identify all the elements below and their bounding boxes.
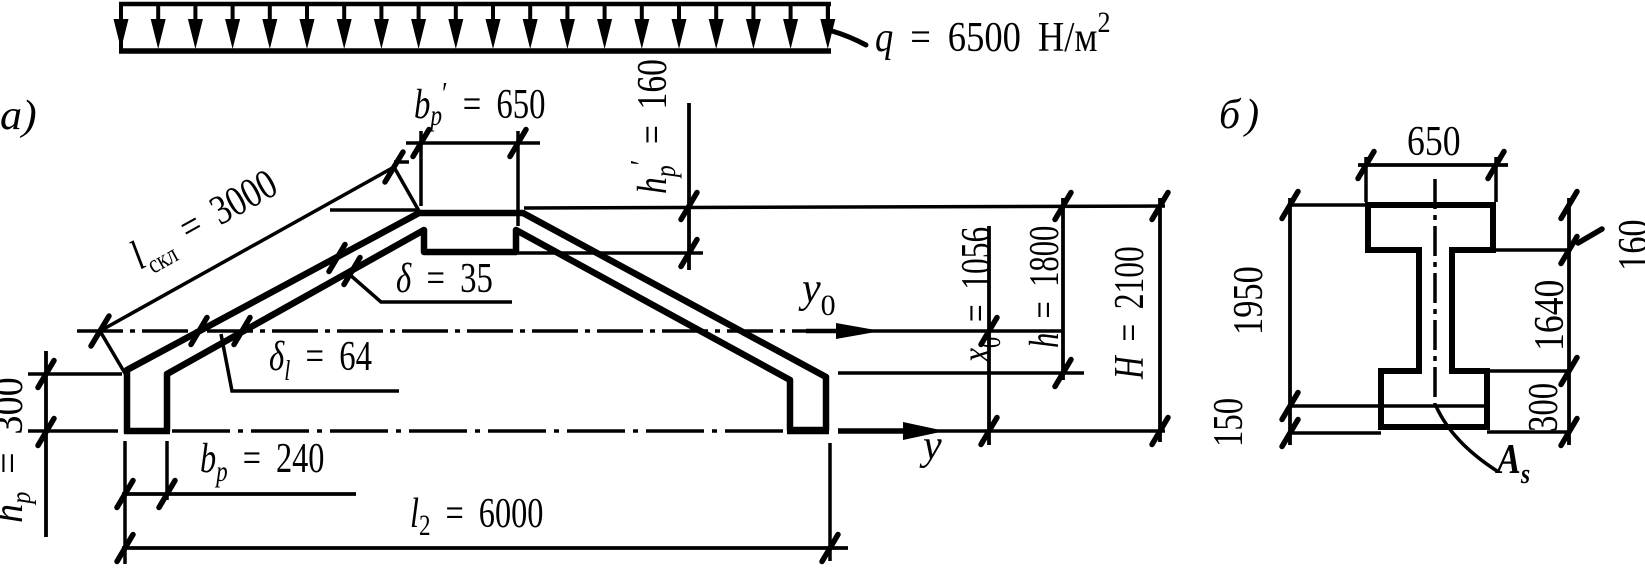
svg-text:δ = 35: δ = 35 xyxy=(396,255,493,302)
svg-text:l2 = 6000: l2 = 6000 xyxy=(410,491,543,542)
svg-text:lскл = 3000: lскл = 3000 xyxy=(123,161,289,285)
svg-text:160: 160 xyxy=(1611,219,1645,271)
svg-text:bp′ = 650: bp′ = 650 xyxy=(414,76,546,132)
svg-text:1640: 1640 xyxy=(1526,280,1572,351)
svg-text:As: As xyxy=(1494,436,1530,489)
svg-text:H = 2100: H = 2100 xyxy=(1107,246,1153,380)
svg-text:x0 = 1056: x0 = 1056 xyxy=(954,227,1007,363)
svg-text:hp′ = 160: hp′ = 160 xyxy=(624,59,681,194)
svg-text:150: 150 xyxy=(1205,398,1252,447)
svg-text:q = 6500 Н/м2: q = 6500 Н/м2 xyxy=(875,6,1111,60)
svg-text:б): б) xyxy=(1219,92,1264,138)
svg-text:y0: y0 xyxy=(798,266,836,322)
svg-text:650: 650 xyxy=(1407,118,1461,164)
svg-text:y: y xyxy=(919,423,942,469)
svg-text:а): а) xyxy=(0,93,37,139)
svg-text:1950: 1950 xyxy=(1226,266,1272,335)
svg-text:δl = 64: δl = 64 xyxy=(269,333,372,386)
svg-text:hp = 300: hp = 300 xyxy=(0,377,36,523)
svg-text:bp = 240: bp = 240 xyxy=(200,436,324,488)
svg-text:300: 300 xyxy=(1520,383,1567,432)
svg-text:h = 1800: h = 1800 xyxy=(1020,226,1067,348)
